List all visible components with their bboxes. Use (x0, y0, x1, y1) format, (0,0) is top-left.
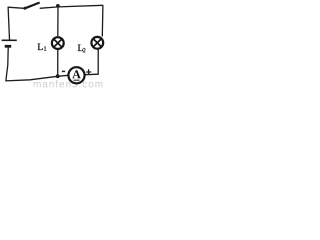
wire right lower (bottom-right corner up to lamp L2) (97, 49, 99, 74)
wire left upper (corner down to battery) (8, 7, 9, 40)
label L1 (38, 44, 47, 51)
label ammeter minus terminal (62, 70, 65, 72)
wire bottom junction to ammeter (58, 75, 68, 76)
battery positive plate (2, 39, 17, 41)
lamp L1 (52, 37, 64, 49)
wire left lower (battery down to bottom-left corner) (6, 48, 8, 81)
wire right upper (top-right corner down to lamp L2) (101, 5, 104, 36)
wire ammeter to bottom-right corner (85, 73, 98, 76)
wire top-right segment (switch to top-right corner) (40, 5, 103, 8)
battery negative plate (5, 45, 12, 48)
lamp L2 (91, 37, 103, 49)
wire top-left segment (corner to switch) (8, 7, 24, 8)
label ammeter plus terminal (86, 69, 91, 74)
ammeter A (68, 67, 84, 83)
node bottom junction dot (56, 74, 60, 78)
switch S pivot (23, 7, 26, 10)
watermark manfen5.com (34, 80, 103, 87)
label L2 (78, 45, 86, 53)
wire L1 upper (top junction down to lamp L1) (57, 7, 59, 36)
wire L1 lower (lamp L1 down to bottom junction) (57, 50, 59, 76)
node top junction dot (56, 4, 60, 8)
switch S lever (25, 3, 39, 8)
wire bottom-left (corner to bottom junction) (5, 76, 57, 81)
